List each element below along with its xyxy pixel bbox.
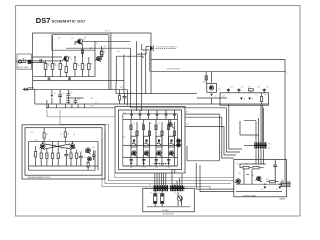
svg-text:2k2: 2k2	[104, 52, 107, 54]
preamp cross wires	[43, 141, 73, 149]
resistor R5	[74, 57, 79, 77]
U1 transistors row2	[131, 151, 174, 156]
input jack J1	[16, 54, 32, 69]
U1 row2 wire	[123, 157, 178, 159]
comb connector P3	[170, 185, 185, 191]
wire y89.7 rail	[35, 89, 128, 91]
ground arrow	[23, 88, 35, 91]
resistor R7	[88, 57, 93, 77]
wire emitter rail	[33, 57, 95, 77]
svg-text:R6: R6	[62, 65, 64, 67]
preamp transistor Qd	[87, 157, 91, 161]
svg-text:R44: R44	[266, 179, 269, 181]
svg-text:C25: C25	[79, 151, 82, 153]
nested loop W4	[102, 139, 210, 190]
wire to send diode	[116, 41, 149, 58]
wire y98 rail	[66, 97, 84, 99]
svg-text:47u: 47u	[91, 105, 94, 107]
node dot S1	[264, 184, 265, 185]
wire drop x141.7	[141, 52, 143, 111]
node dot S2	[279, 184, 280, 185]
svg-text:R41: R41	[237, 164, 240, 166]
U1 transistors row1	[131, 136, 175, 147]
preamp transistor Qb	[70, 144, 76, 150]
resistor R6	[81, 57, 84, 77]
node dot Q2e	[90, 48, 91, 49]
svg-text:R4: R4	[41, 62, 43, 64]
drop to comb bus 2	[172, 169, 182, 185]
bottom connector box	[143, 188, 195, 212]
svg-text:Q8: Q8	[60, 134, 62, 136]
capacitor C1	[40, 59, 42, 63]
svg-text:SUPPLY SIDE: SUPPLY SIDE	[243, 196, 257, 198]
svg-text:1: 1	[287, 57, 288, 59]
drop to comb bus	[155, 173, 166, 185]
svg-text:4k7: 4k7	[135, 136, 138, 138]
svg-text:C15: C15	[123, 113, 126, 115]
right middle box	[220, 93, 269, 105]
preamp transistor Qc	[85, 148, 91, 154]
svg-text:C18: C18	[186, 124, 189, 126]
bus y93.5	[116, 83, 197, 94]
svg-text:Q1: Q1	[70, 59, 72, 61]
wire lower rail	[33, 80, 124, 82]
U1 bottom marks	[130, 160, 171, 164]
transistor Q10	[177, 139, 181, 143]
net label dotted	[156, 46, 178, 49]
svg-text:DISTORTION: DISTORTION	[167, 68, 180, 70]
svg-text:D5: D5	[251, 99, 253, 101]
capacitor C9	[237, 89, 240, 93]
wire driver top	[205, 72, 207, 84]
label cluster	[30, 37, 288, 195]
svg-text:Q1: Q1	[69, 57, 71, 59]
preamp mid rail	[29, 141, 99, 166]
capacitor C2	[48, 77, 51, 81]
U1 bottom rail	[123, 165, 178, 167]
preamp box lower-left inner	[25, 128, 102, 176]
wire collector bus	[53, 36, 83, 61]
wire drop x123.9	[123, 55, 125, 94]
comb wires down	[240, 149, 266, 168]
output connector J3	[280, 179, 291, 201]
wire box1 left bottom	[34, 89, 36, 104]
IC pair U2	[104, 33, 111, 90]
svg-text:Q10: Q10	[92, 147, 95, 149]
svg-text:10k: 10k	[77, 65, 80, 67]
supply resistor R21	[266, 181, 279, 183]
U1 rail y119.5	[123, 119, 178, 121]
svg-text:R7: R7	[90, 64, 92, 66]
svg-text:D8: D8	[261, 189, 263, 191]
svg-text:R24: R24	[257, 87, 260, 89]
preamp pullup resistor Rp2	[64, 128, 70, 144]
preamp cap Cx	[92, 151, 96, 161]
wire input to amp	[31, 61, 62, 63]
resistor R2c	[101, 48, 106, 57]
svg-text:D3: D3	[215, 96, 217, 98]
svg-text:T1: T1	[104, 46, 106, 48]
transistor Qtr top-right	[168, 120, 174, 129]
svg-text:C9: C9	[96, 43, 98, 45]
svg-text:T2: T2	[255, 95, 257, 97]
resistor R3	[59, 60, 62, 77]
svg-text:1k: 1k	[172, 150, 174, 152]
U1 top components row	[130, 110, 176, 119]
comb left wire	[145, 187, 154, 189]
block right wires	[185, 114, 236, 161]
supply resistor R20	[253, 167, 264, 169]
svg-text:AC IN: AC IN	[282, 179, 287, 182]
resistor R2	[51, 61, 56, 77]
svg-text:4k7: 4k7	[148, 136, 151, 138]
svg-text:Q6: Q6	[167, 123, 169, 125]
capacitor C4	[58, 90, 62, 104]
supply bottom rail	[236, 191, 282, 193]
switch S1	[177, 192, 182, 206]
capacitor C8	[227, 89, 230, 93]
svg-text:F1: F1	[150, 193, 152, 195]
wire comb top rail	[240, 121, 259, 135]
supply resistor R19	[240, 167, 252, 169]
wire drop x145.7	[145, 52, 147, 93]
svg-text:R23: R23	[248, 87, 251, 89]
U1 cell column wires	[131, 120, 175, 167]
svg-text:MUTE: MUTE	[28, 88, 34, 90]
svg-text:R38: R38	[219, 152, 222, 154]
svg-text:Q5: Q5	[158, 123, 160, 125]
node dot bus	[46, 107, 47, 108]
U1 row1 wire	[123, 145, 178, 147]
capacitor C10	[263, 89, 266, 93]
svg-text:Q9: Q9	[73, 134, 75, 136]
svg-text:100: 100	[143, 167, 146, 169]
svg-text:D6: D6	[265, 95, 267, 97]
bus y105.6	[35, 103, 269, 105]
svg-text:10k: 10k	[67, 134, 70, 136]
corner wire K1	[196, 163, 234, 189]
svg-text:Q12: Q12	[238, 173, 241, 175]
svg-text:R21: R21	[186, 112, 189, 114]
op-amp block U1 outer	[115, 107, 185, 174]
preamp transistor Qa	[40, 144, 46, 150]
svg-text:C16: C16	[110, 89, 113, 91]
svg-text:C20: C20	[230, 87, 233, 89]
box2 outline	[52, 35, 109, 51]
svg-text:SHT 2: SHT 2	[105, 31, 110, 33]
driver box Q3	[203, 82, 217, 93]
svg-text:100: 100	[168, 167, 171, 169]
resistor R15b	[118, 90, 120, 104]
wire drop x130.5	[66, 48, 131, 108]
preamp bottom rail2	[29, 141, 99, 170]
svg-text:R17: R17	[95, 103, 98, 105]
wire right long top	[151, 60, 285, 181]
svg-text:4k7: 4k7	[55, 65, 58, 67]
svg-text:C23: C23	[30, 132, 33, 134]
diode D4	[240, 96, 245, 104]
capacitor C3	[68, 77, 71, 81]
supply rail	[236, 183, 282, 185]
supply internal wires	[244, 169, 252, 184]
capacitor C16b	[123, 94, 127, 105]
svg-text:AC MODULE: AC MODULE	[163, 213, 174, 216]
nested loop W1	[47, 110, 234, 178]
svg-text:R15: R15	[120, 87, 123, 89]
resistor R8	[100, 46, 103, 60]
svg-text:POWER: POWER	[162, 210, 169, 212]
svg-text:D1: D1	[54, 93, 56, 95]
svg-text:D9: D9	[276, 189, 278, 191]
preamp top rail	[29, 140, 99, 142]
diode D2	[51, 90, 54, 104]
fuse F1	[154, 191, 157, 207]
border frame	[16, 6, 301, 217]
bus y107.8	[47, 107, 227, 109]
diode D3	[210, 92, 213, 98]
comb wires up	[244, 104, 264, 142]
svg-text:2: 2	[287, 73, 288, 75]
transistor Q11	[177, 143, 181, 147]
capacitor C5	[66, 90, 70, 98]
svg-text:100: 100	[130, 167, 133, 169]
svg-text:TO DISTORTION BOARD P1: TO DISTORTION BOARD P1	[156, 46, 178, 49]
op-amp block U1 inner	[119, 110, 182, 170]
node dot A	[52, 60, 53, 61]
svg-text:100: 100	[155, 167, 158, 169]
svg-text:22k: 22k	[84, 37, 87, 39]
box1 outline	[33, 33, 152, 94]
resistor R10	[260, 93, 262, 104]
svg-text:C13: C13	[70, 92, 73, 94]
resistor R4	[65, 61, 68, 77]
capacitor C6b	[73, 98, 77, 104]
supply box	[234, 160, 287, 197]
bus y107.8 stubs	[47, 100, 85, 108]
nested loop W3	[105, 131, 231, 184]
supply comb J2	[244, 142, 270, 150]
diode D5	[248, 96, 253, 104]
wire drop x127.5	[127, 90, 129, 106]
svg-text:4k7: 4k7	[172, 136, 175, 138]
svg-text:1k: 1k	[160, 150, 162, 152]
svg-text:SCHEMATIC DS7: SCHEMATIC DS7	[52, 20, 86, 24]
resistor R9	[248, 89, 253, 93]
svg-text:PRE/DRIVE AMP PCB 01: PRE/DRIVE AMP PCB 01	[28, 176, 52, 179]
svg-text:R14: R14	[117, 51, 120, 53]
svg-text:INPUT JACK: INPUT JACK	[18, 66, 29, 69]
svg-text:C11: C11	[128, 57, 131, 59]
svg-text:1k: 1k	[148, 150, 150, 152]
supply diode D6	[264, 184, 267, 191]
transistor Q2	[76, 39, 85, 45]
bottom box rail	[147, 206, 190, 208]
resistor R2b	[81, 50, 83, 58]
drop arrowheads	[154, 163, 167, 165]
svg-text:22u: 22u	[91, 98, 94, 100]
preamp pullup resistor Rp1	[43, 128, 49, 144]
comb connector P2	[153, 185, 168, 191]
transistor Q1b	[95, 56, 101, 61]
svg-text:C21: C21	[241, 87, 244, 89]
svg-text:S1: S1	[174, 193, 176, 195]
wire drop x136.6	[136, 54, 138, 111]
svg-text:C14: C14	[77, 99, 80, 101]
svg-text:Q2: Q2	[133, 123, 135, 125]
transistor Q1	[62, 56, 71, 62]
svg-text:F2: F2	[158, 193, 160, 195]
wire stage2 top	[83, 40, 131, 42]
svg-text:P2: P2	[149, 184, 151, 186]
svg-text:1k: 1k	[103, 49, 105, 51]
svg-text:Q4: Q4	[150, 123, 152, 125]
svg-text:Q3: Q3	[141, 123, 143, 125]
capacitor C7	[205, 76, 207, 80]
svg-text:Q13: Q13	[251, 175, 254, 177]
wire driver bottom	[197, 98, 227, 104]
svg-text:C24: C24	[60, 148, 63, 150]
svg-text:C22: C22	[266, 87, 269, 89]
svg-text:Q3: Q3	[203, 82, 205, 84]
svg-text:C8: C8	[71, 38, 73, 40]
svg-text:P4: P4	[268, 144, 270, 146]
svg-text:C28: C28	[219, 156, 222, 158]
svg-text:4u7: 4u7	[84, 157, 87, 159]
preamp resistor bank	[35, 141, 83, 166]
svg-text:P5: P5	[268, 148, 270, 150]
svg-text:330k: 330k	[48, 65, 52, 67]
supply transistor Q8	[235, 179, 241, 185]
preamp box lower-left outer	[22, 125, 105, 179]
svg-text:C12: C12	[62, 93, 65, 95]
svg-text:R9: R9	[85, 65, 87, 67]
svg-text:1u: 1u	[131, 92, 133, 94]
svg-text:D4: D4	[243, 99, 245, 101]
diode D1 send	[150, 45, 154, 51]
svg-text:10k: 10k	[46, 134, 49, 136]
capacitor C6	[66, 98, 70, 104]
supply transistor Q9	[255, 176, 261, 182]
wire mid verticals	[95, 41, 116, 83]
svg-text:DS7: DS7	[36, 16, 51, 25]
svg-text:R11: R11	[58, 38, 61, 40]
bus right verticals	[227, 104, 243, 152]
nested loop W2	[60, 110, 234, 181]
svg-text:C2: C2	[36, 56, 38, 58]
U1 inner rect3	[123, 114, 178, 166]
wire y160.8	[187, 146, 220, 161]
capacitor C33	[273, 160, 277, 182]
resistor R1	[44, 61, 49, 77]
svg-text:4k7: 4k7	[160, 136, 163, 138]
wire distortion net	[151, 72, 286, 83]
U1 cell resistors row	[130, 125, 176, 136]
wire drop x149.8	[149, 51, 151, 71]
svg-text:MAINS: MAINS	[280, 198, 286, 201]
svg-text:1k: 1k	[135, 150, 137, 152]
fuse F2	[161, 191, 164, 207]
node dot B	[74, 56, 75, 57]
svg-text:IC1: IC1	[123, 137, 126, 139]
svg-text:C19: C19	[218, 89, 221, 91]
supply diode D7	[278, 184, 281, 191]
svg-text:Q2: Q2	[83, 39, 85, 41]
corner wire K2	[200, 165, 234, 192]
preamp resistor Re	[87, 161, 89, 170]
